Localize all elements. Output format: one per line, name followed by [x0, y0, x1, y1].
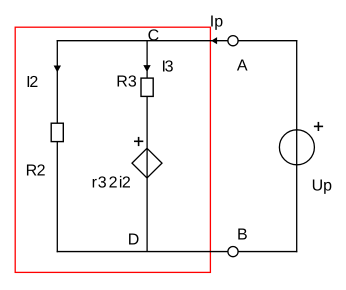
- svg-text:R2: R2: [26, 163, 46, 180]
- svg-text:I2: I2: [26, 74, 38, 91]
- svg-text:C: C: [148, 28, 160, 45]
- svg-text:B: B: [237, 227, 248, 244]
- svg-text:I3: I3: [162, 59, 174, 76]
- svg-text:Up: Up: [312, 178, 333, 195]
- svg-text:r32i2: r32i2: [92, 174, 131, 191]
- svg-text:R3: R3: [116, 74, 137, 91]
- svg-text:A: A: [237, 58, 248, 75]
- svg-text:Ip: Ip: [210, 14, 223, 31]
- svg-text:D: D: [128, 232, 140, 249]
